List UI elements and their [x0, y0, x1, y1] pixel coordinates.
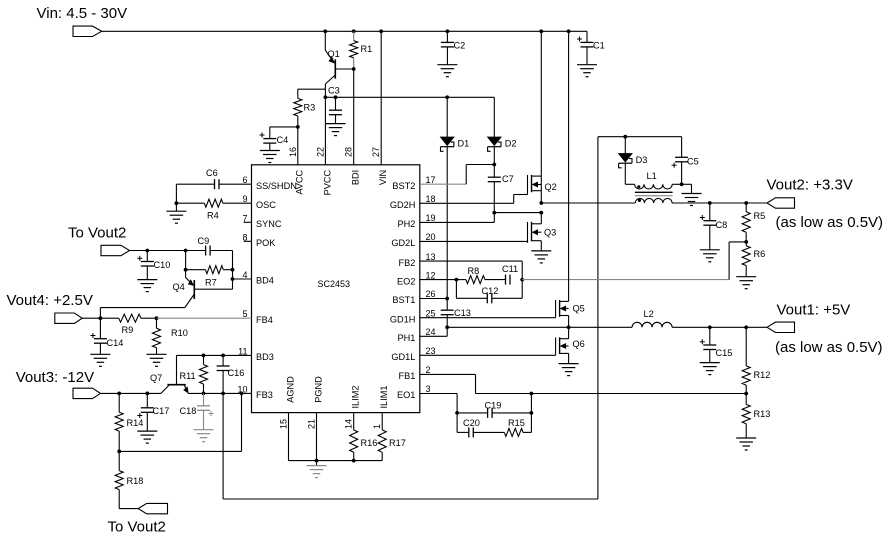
svg-text:C18: C18	[180, 406, 197, 416]
node R7 left	[184, 268, 188, 272]
node Vin-VIN	[379, 29, 383, 33]
svg-text:R17: R17	[389, 438, 406, 448]
svg-text:To Vout2: To Vout2	[68, 225, 126, 242]
svg-text:L1: L1	[647, 171, 657, 181]
label Q6	[573, 339, 585, 349]
node FB3-jog	[240, 392, 244, 396]
connector Vout4	[55, 313, 82, 323]
svg-text:SS/SHDN: SS/SHDN	[256, 181, 297, 191]
node BD3-C16	[221, 354, 225, 358]
svg-text:BST1: BST1	[392, 295, 415, 305]
wire PH2 pin19	[420, 213, 495, 223]
resistor R14	[115, 393, 123, 451]
label C2	[454, 41, 466, 51]
svg-text:R11: R11	[180, 371, 196, 381]
wire Q4 emitter column	[185, 251, 187, 278]
svg-text:18: 18	[426, 194, 436, 204]
svg-text:R5: R5	[754, 211, 766, 221]
svg-text:R3: R3	[304, 103, 316, 113]
svg-text:Vin: 4.5 - 30V: Vin: 4.5 - 30V	[37, 5, 128, 22]
label R18	[127, 476, 144, 486]
wire Vout3 line left	[100, 392, 161, 394]
svg-text:C14: C14	[107, 338, 124, 348]
label C6	[206, 168, 218, 178]
ground C15	[700, 363, 720, 375]
node PGND gnd	[315, 459, 319, 463]
node Vout1-R12	[744, 325, 748, 329]
transistor Q5	[556, 31, 569, 327]
resistor R15	[504, 428, 523, 436]
connector To-Vout2 upper	[101, 245, 130, 255]
ground C2	[437, 65, 457, 77]
wire VIN pin27	[380, 31, 382, 165]
label L1	[647, 171, 657, 181]
inductor L1 primary	[635, 198, 672, 203]
node PH2 rail	[539, 211, 543, 215]
node Vout2-C8	[708, 201, 712, 205]
label D2	[505, 138, 517, 148]
connector Vout1	[767, 322, 795, 332]
svg-text:14: 14	[344, 419, 354, 429]
label C4	[277, 135, 289, 145]
svg-text:28: 28	[344, 147, 354, 157]
wire Vin rail	[102, 30, 587, 32]
svg-text:C9: C9	[198, 236, 210, 246]
resistor R1	[350, 31, 358, 69]
wire FB2 pin13	[420, 261, 522, 280]
ground PGND	[307, 461, 327, 478]
label D3	[636, 155, 648, 165]
wire BD3 pin11	[177, 354, 252, 356]
svg-text:Vout1: +5V: Vout1: +5V	[777, 302, 851, 319]
svg-text:13: 13	[426, 252, 436, 262]
svg-text:Vout3: -12V: Vout3: -12V	[16, 369, 94, 386]
svg-text:R9: R9	[122, 325, 134, 335]
label R9	[122, 325, 134, 335]
text Vout2 label	[767, 177, 853, 194]
wire FB3 line right	[188, 392, 252, 394]
label C17	[153, 406, 170, 416]
svg-text:R12: R12	[754, 370, 771, 380]
pin number labels	[237, 147, 435, 429]
node Vout1-C15	[708, 325, 712, 329]
text To Vout2 upper	[68, 225, 126, 242]
label Q5	[573, 304, 585, 314]
capacitor C8	[700, 203, 717, 250]
svg-text:17: 17	[426, 175, 436, 185]
ground C8	[700, 250, 720, 262]
node C19 right	[530, 411, 534, 415]
svg-text:GD2H: GD2H	[390, 200, 416, 210]
svg-text:C2: C2	[454, 41, 466, 51]
node BST2-C7	[492, 163, 496, 167]
wire FB2 to divider	[522, 242, 746, 280]
capacitor C16	[217, 355, 230, 393]
wire EO1 pin3	[420, 394, 457, 413]
svg-text:PH2: PH2	[398, 219, 416, 229]
capacitor C12	[487, 293, 492, 303]
wire GD1L pin23	[420, 354, 556, 356]
resistor R3	[294, 89, 302, 127]
wire C20 R15 row	[457, 413, 531, 433]
resistor R7	[186, 266, 233, 274]
resistor R8	[456, 276, 505, 284]
svg-text:Q2: Q2	[545, 182, 557, 192]
pin 8 POK stub	[244, 240, 252, 242]
wire -12V top line	[598, 136, 682, 138]
node R10 tap	[155, 316, 159, 320]
label R1	[361, 44, 373, 54]
svg-text:L2: L2	[644, 309, 654, 319]
node R12-R13	[744, 392, 748, 396]
svg-text:C19: C19	[485, 401, 502, 411]
resistor R12	[742, 327, 750, 393]
resistor R13	[742, 394, 750, 439]
svg-text:D2: D2	[505, 138, 517, 148]
resistor R16	[350, 413, 358, 461]
svg-text:Q7: Q7	[150, 373, 162, 383]
svg-text:FB4: FB4	[256, 315, 273, 325]
ground C10	[137, 280, 157, 292]
capacitor C4	[260, 127, 277, 151]
capacitor C20	[469, 427, 474, 437]
ground R13	[736, 438, 756, 450]
transistor Q3	[528, 213, 542, 251]
label R12	[754, 370, 771, 380]
svg-text:GD1L: GD1L	[391, 352, 415, 362]
svg-text:C7: C7	[502, 174, 514, 184]
node D1 anode	[445, 95, 449, 99]
capacitor C1	[577, 31, 594, 64]
wire BD4 pin4 line	[233, 278, 252, 280]
capacitor C11	[506, 275, 511, 285]
svg-text:Q5: Q5	[573, 304, 585, 314]
ground C17	[137, 431, 157, 443]
wire To-Vout2 rail	[130, 250, 233, 252]
label C8	[716, 220, 728, 230]
connector To-Vout2 lower	[138, 503, 167, 513]
svg-text:PGND: PGND	[313, 376, 323, 403]
ground C3	[326, 124, 346, 136]
svg-text:FB3: FB3	[256, 390, 273, 400]
diode D1	[440, 97, 454, 298]
capacitor C13	[441, 299, 454, 328]
svg-text:R14: R14	[127, 418, 144, 428]
svg-text:1: 1	[372, 424, 382, 429]
node Vin-Q2drain	[539, 29, 543, 33]
wire Vout4 line	[82, 317, 119, 319]
resistor R6	[742, 242, 750, 277]
svg-text:Q3: Q3	[544, 228, 556, 238]
resistor R5	[742, 203, 750, 242]
wire -12V right riser	[597, 137, 599, 499]
label R13	[754, 409, 771, 419]
label Q3	[544, 228, 556, 238]
label Q4	[173, 282, 185, 292]
svg-text:3: 3	[426, 384, 431, 394]
svg-text:PVCC: PVCC	[322, 169, 332, 195]
label R7	[205, 278, 217, 288]
node Vin-C2	[446, 29, 450, 33]
svg-text:C20: C20	[463, 418, 480, 428]
label C3	[328, 86, 340, 96]
label R15	[508, 418, 525, 428]
op-amp U1 SC2453 controller IC body	[252, 165, 420, 413]
svg-text:23: 23	[426, 346, 436, 356]
label R3	[304, 103, 316, 113]
svg-text:R10: R10	[171, 328, 188, 338]
wire BD4 column	[232, 251, 234, 290]
node L1 sec right	[680, 182, 684, 186]
wire BD1 pin28	[353, 69, 355, 165]
svg-text:27: 27	[371, 147, 381, 157]
svg-text:To Vout2: To Vout2	[108, 519, 166, 536]
transistor Q6	[556, 327, 569, 363]
ground C18	[194, 430, 214, 442]
text Vout4 label	[7, 292, 93, 309]
resistor R4	[176, 199, 251, 207]
label C1	[593, 41, 605, 51]
label L2	[644, 309, 654, 319]
wire SS/SHDN pin6	[176, 183, 251, 185]
wire -12V raw vertical	[222, 393, 224, 499]
capacitor C17	[137, 393, 154, 431]
label C14	[107, 338, 124, 348]
wire Q1 collector to PVCC pin22	[324, 89, 326, 165]
svg-text:BD3: BD3	[256, 352, 274, 362]
svg-text:SC2453: SC2453	[318, 279, 351, 289]
wire L1 sec gnd	[682, 184, 692, 193]
connector Vin input	[73, 26, 102, 36]
svg-text:12: 12	[426, 270, 436, 280]
resistor R17	[378, 413, 386, 461]
wire AGND stub	[288, 413, 290, 461]
svg-text:Q4: Q4	[173, 282, 185, 292]
node Vin-R1	[352, 29, 356, 33]
svg-text:D1: D1	[458, 138, 470, 148]
wire Q4 collector run	[100, 308, 184, 319]
svg-text:15: 15	[278, 419, 288, 429]
node BD4 pin4	[231, 277, 235, 281]
wire C19 row	[457, 412, 531, 414]
label C18	[180, 406, 197, 416]
label R17	[389, 438, 406, 448]
inductor L2	[632, 322, 672, 327]
pin 7 SYNC stub	[244, 221, 252, 223]
node PH1 rail	[567, 325, 571, 329]
label C15	[716, 348, 733, 358]
ground C1	[577, 65, 597, 77]
label R14	[127, 418, 144, 428]
node Vout3-C17	[145, 392, 149, 396]
node EO2	[455, 278, 459, 282]
svg-text:C8: C8	[716, 220, 728, 230]
capacitor C10	[137, 251, 154, 280]
svg-text:EO1: EO1	[397, 390, 415, 400]
node Q1 base-R1	[352, 67, 356, 71]
svg-text:Q1: Q1	[328, 49, 340, 59]
svg-text:AVCC: AVCC	[295, 169, 305, 194]
wire EO2 pin12	[420, 279, 457, 281]
ground R4/C6	[166, 203, 186, 223]
transistor Q4	[185, 278, 233, 308]
wire AVCC to C4	[270, 126, 298, 128]
node C10 tap	[145, 249, 149, 253]
svg-text:POK: POK	[256, 238, 276, 248]
wire PH2 link	[494, 212, 541, 214]
text Vout1 label	[777, 302, 851, 319]
wire node-A to FB3 jog	[119, 393, 241, 451]
diode D3	[619, 137, 633, 185]
node FB3-C16	[221, 392, 225, 396]
ground L1 secondary	[682, 194, 702, 206]
wire PH1 line	[447, 326, 632, 328]
node Q2 source-phase	[539, 201, 543, 205]
text Vout3 label	[16, 369, 94, 386]
label Q2	[545, 182, 557, 192]
ground C4	[260, 151, 280, 163]
svg-text:Vout2: +3.3V: Vout2: +3.3V	[767, 177, 853, 194]
svg-text:BDI: BDI	[351, 170, 361, 185]
label C5	[687, 157, 699, 167]
svg-text:16: 16	[288, 147, 298, 157]
svg-text:R1: R1	[361, 44, 373, 54]
node Vin-Q5drain	[567, 29, 571, 33]
wire PH1 pin24	[420, 327, 447, 336]
svg-text:D3: D3	[636, 155, 648, 165]
node OSC gnd	[175, 201, 179, 205]
node C7-PH2	[492, 211, 496, 215]
label R10	[171, 328, 188, 338]
svg-text:R13: R13	[754, 409, 771, 419]
wire Vout2 line	[541, 202, 767, 204]
svg-text:C17: C17	[153, 406, 170, 416]
svg-text:ILIM1: ILIM1	[379, 386, 389, 409]
node PVCC-C3 rail	[324, 95, 328, 99]
node R16 bus	[352, 459, 356, 463]
wire FB1 pin2	[420, 374, 746, 393]
svg-text:Vout4: +2.5V: Vout4: +2.5V	[7, 292, 93, 309]
resistor R18	[115, 451, 123, 508]
capacitor C14	[90, 318, 107, 354]
capacitor C6	[215, 179, 220, 189]
svg-text:R4: R4	[207, 211, 219, 221]
svg-text:GD1H: GD1H	[390, 314, 416, 324]
label R4	[207, 211, 219, 221]
label Q7	[150, 373, 162, 383]
text Vin label	[37, 5, 128, 22]
wire -12V bottom rail	[223, 498, 598, 500]
wire Vout1 line	[672, 326, 767, 328]
svg-text:ILIM2: ILIM2	[351, 386, 361, 409]
svg-text:R18: R18	[127, 476, 144, 486]
text Vout1 note	[775, 339, 883, 356]
capacitor C3	[329, 97, 342, 123]
wire PGND stub	[316, 413, 318, 461]
svg-text:R15: R15	[508, 418, 525, 428]
capacitor C7	[488, 165, 501, 213]
label R16	[361, 438, 378, 448]
wire comp riser	[530, 394, 532, 413]
svg-text:19: 19	[426, 213, 436, 223]
node D3 anode	[623, 135, 627, 139]
wire GD2H pin18	[420, 195, 528, 204]
node Vin-Q1	[323, 29, 327, 33]
capacitor C5	[672, 137, 689, 185]
svg-text:GD2L: GD2L	[391, 238, 415, 248]
svg-text:C11: C11	[502, 264, 518, 274]
wire C12 branch	[456, 280, 522, 299]
svg-text:PH1: PH1	[398, 333, 416, 343]
node FB2 join	[520, 278, 524, 282]
capacitor C2	[441, 31, 454, 64]
svg-text:C3: C3	[328, 86, 340, 96]
node FB1 join	[530, 392, 534, 396]
svg-text:C5: C5	[687, 157, 699, 167]
label C11	[502, 264, 518, 274]
wire GD1H pin25	[420, 317, 556, 319]
svg-text:SYNC: SYNC	[256, 219, 282, 229]
wire C6 to gnd corner	[175, 184, 177, 203]
label R8	[468, 266, 480, 276]
label C16	[228, 368, 245, 378]
label C7	[502, 174, 514, 184]
svg-text:21: 21	[306, 419, 316, 429]
svg-text:FB1: FB1	[399, 371, 416, 381]
wire PVCC to diode rail	[325, 96, 494, 98]
ground R6	[736, 277, 756, 289]
svg-text:22: 22	[315, 147, 325, 157]
svg-text:C10: C10	[154, 260, 171, 270]
svg-text:FB2: FB2	[399, 258, 416, 268]
label C9	[198, 236, 210, 246]
svg-text:C6: C6	[206, 168, 218, 178]
svg-text:(as low as 0.5V): (as low as 0.5V)	[776, 214, 884, 231]
svg-text:EO2: EO2	[397, 276, 415, 286]
node R7 right	[231, 268, 235, 272]
svg-text:Q6: Q6	[573, 339, 585, 349]
wire FB4 pin5	[157, 317, 252, 319]
transistor Q2	[528, 31, 542, 203]
label R5	[754, 211, 766, 221]
node C3 tap	[334, 95, 338, 99]
wire R3 top link	[298, 88, 326, 90]
capacitor C15	[700, 327, 717, 362]
svg-text:20: 20	[426, 232, 436, 242]
capacitor C9	[206, 246, 211, 256]
resistor R11	[200, 355, 208, 393]
connector Vout3	[73, 388, 100, 398]
wire BST2 pin17	[420, 165, 495, 185]
label C12	[482, 286, 499, 296]
svg-text:C15: C15	[716, 348, 733, 358]
wire AVCC to pin16	[297, 127, 299, 165]
node C19 left	[455, 411, 459, 415]
svg-text:26: 26	[426, 289, 436, 299]
capacitor C19	[488, 408, 493, 418]
node Vout3-R14	[117, 392, 121, 396]
resistor R9	[119, 314, 157, 322]
node Vout2-R5	[744, 201, 748, 205]
label C19	[485, 401, 502, 411]
node Vout4-C14	[99, 316, 103, 320]
label R11	[180, 371, 196, 381]
label D1	[458, 138, 470, 148]
svg-text:R16: R16	[361, 438, 378, 448]
label Q1	[328, 49, 340, 59]
svg-text:R6: R6	[754, 249, 766, 259]
svg-text:2: 2	[426, 365, 431, 375]
